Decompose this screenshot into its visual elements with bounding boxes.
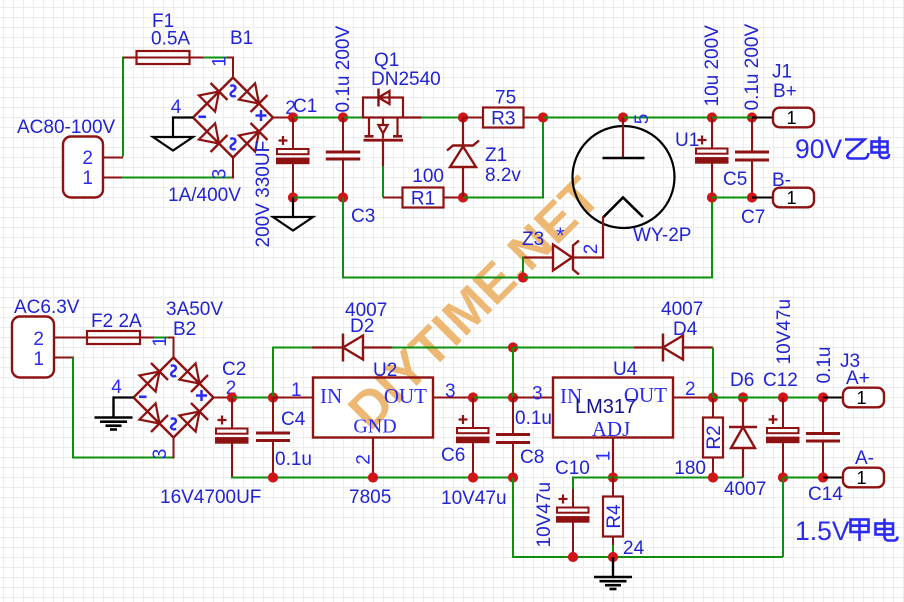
svg-text:10V47u: 10V47u <box>534 482 555 548</box>
wire tube cathode to Z3 <box>572 217 603 258</box>
U4 ADJ pin wire <box>612 438 614 478</box>
svg-text:ADJ: ADJ <box>592 417 631 441</box>
wire tube node to C5 <box>623 117 712 119</box>
wire node C2 to node C4 <box>232 397 273 399</box>
svg-text:DN2540: DN2540 <box>371 69 441 90</box>
svg-text:U4: U4 <box>613 359 638 380</box>
wire B1 pin 2 to node C1 <box>273 117 293 119</box>
capacitor C2 16V4700UF <box>231 398 233 429</box>
capacitor C14 0.1u <box>822 398 824 433</box>
ground at B2 pin 4 earth <box>114 396 134 399</box>
wire node to diode D4 <box>513 347 634 349</box>
regulator U4 LM317 <box>553 378 673 438</box>
svg-text:B+: B+ <box>773 81 797 102</box>
node C6 top <box>468 392 478 402</box>
capacitor C4 0.1u <box>272 398 274 432</box>
node R4 bottom <box>608 552 618 562</box>
svg-text:2: 2 <box>82 148 93 169</box>
wire P2 pin 1 to bridge B2 pin 3 <box>54 357 74 359</box>
capacitor C7 0.1u 200V <box>747 112 757 122</box>
node C4 bottom <box>268 472 278 482</box>
capacitor C1 200V 330UF <box>292 118 294 150</box>
wire fuse F1 to bridge B1 pin 1 <box>190 57 205 59</box>
wire to connector J3 A+ <box>823 397 843 399</box>
capacitor C12 10V47u <box>782 398 784 429</box>
svg-text:75: 75 <box>495 88 516 109</box>
svg-text:4007: 4007 <box>724 479 766 500</box>
svg-text:D6: D6 <box>730 370 754 391</box>
node at C1 bottom <box>288 192 298 202</box>
wire C12 bottom to C14 bottom <box>783 477 823 479</box>
svg-text:C6: C6 <box>441 445 465 466</box>
svg-text:R4: R4 <box>604 504 625 529</box>
svg-text:1: 1 <box>291 380 302 401</box>
regulator U2 box fill <box>313 378 433 438</box>
resistor R3 75 <box>463 117 483 119</box>
svg-text:A+: A+ <box>846 368 870 389</box>
svg-text:10V47u: 10V47u <box>441 488 507 509</box>
svg-text:R2: R2 <box>704 425 725 449</box>
wire D4 down to node OUT <box>712 348 714 398</box>
connector J1 B- <box>773 188 814 208</box>
svg-text:AC6.3V: AC6.3V <box>14 297 80 318</box>
wire node C8 to U4 IN <box>513 397 553 399</box>
diode D6 4007 <box>742 398 744 428</box>
svg-text:U2: U2 <box>373 360 397 381</box>
wire Z3 to bottom rail <box>522 257 524 278</box>
wire node C4 up to diode D2 <box>273 348 313 397</box>
svg-text:1: 1 <box>150 336 171 347</box>
ground below C1 <box>292 198 294 218</box>
svg-text:AC80-100V: AC80-100V <box>17 117 116 138</box>
node R3 right <box>538 112 548 122</box>
node C6 bottom <box>468 472 478 482</box>
wire C2 bottom rail <box>232 477 513 478</box>
svg-text:1A/400V: 1A/400V <box>168 185 241 206</box>
svg-text:C7: C7 <box>741 207 765 228</box>
node Z1 bottom <box>458 192 468 202</box>
svg-text:D2: D2 <box>350 316 374 337</box>
regulator U2 7805 <box>313 378 433 438</box>
svg-text:C1: C1 <box>293 96 317 117</box>
svg-text:Z1: Z1 <box>485 145 507 166</box>
wire D2 to node C8 top <box>392 347 514 349</box>
ground at B1 pin 4 <box>173 118 193 138</box>
svg-text:2: 2 <box>354 454 375 465</box>
node C8 bottom <box>508 472 518 482</box>
wire ADJ row <box>572 477 613 479</box>
svg-text:4: 4 <box>171 97 182 118</box>
svg-text:WY-2P: WY-2P <box>633 225 691 246</box>
node OUT <box>708 392 718 402</box>
resistor R2 180 <box>712 398 714 418</box>
transistor Q1 DN2540 <box>362 116 422 118</box>
connector J1 B+ <box>773 108 814 128</box>
capacitor C5 10u 200V <box>707 112 717 122</box>
svg-text:R3: R3 <box>491 109 515 130</box>
svg-text:3: 3 <box>445 381 456 402</box>
node C14 top <box>818 392 828 402</box>
node at C3 top <box>338 112 348 122</box>
svg-text:2: 2 <box>581 244 602 255</box>
svg-text:0.1u: 0.1u <box>275 449 312 470</box>
svg-text:*: * <box>556 223 565 248</box>
svg-text:D4: D4 <box>673 319 698 340</box>
wire node C4 to U2 IN <box>273 397 313 399</box>
svg-text:GND: GND <box>353 416 396 438</box>
node U2 GND <box>368 472 378 482</box>
capacitor C8 0.1u <box>512 398 514 434</box>
bridge rectifier B2 <box>134 358 214 438</box>
connector J3 A+ <box>843 388 884 408</box>
svg-text:16V4700UF: 16V4700UF <box>160 487 261 508</box>
svg-text:1.5V: 1.5V <box>795 516 850 546</box>
node D6 top <box>738 392 748 402</box>
svg-text:C4: C4 <box>281 409 306 430</box>
svg-text:C8: C8 <box>520 447 544 468</box>
U2 GND pin wire <box>372 438 374 478</box>
wire ground riser from C8 node down <box>513 478 783 558</box>
svg-text:90V: 90V <box>795 134 842 164</box>
connector P2 AC6.3V <box>12 317 54 378</box>
svg-text:1: 1 <box>786 108 796 128</box>
svg-text:3: 3 <box>150 449 171 460</box>
wire R3 right to tube node <box>543 117 623 119</box>
svg-text:Q1: Q1 <box>374 50 399 71</box>
wire C1 bottom to C3 bottom <box>293 197 343 199</box>
node Z3 bottom <box>518 272 528 282</box>
wire OUT rail right <box>713 397 743 399</box>
svg-text:B2: B2 <box>173 319 196 340</box>
wire C5 bottom to C7 bottom <box>712 197 752 199</box>
wire P1 pin 1 to bridge B1 pin 3 <box>103 177 124 179</box>
svg-text:A-: A- <box>855 448 874 469</box>
svg-text:0.1u: 0.1u <box>814 347 835 384</box>
wire node C3 to Q1 <box>343 117 364 119</box>
svg-text:24: 24 <box>623 538 645 559</box>
svg-text:1: 1 <box>786 188 796 208</box>
svg-text:B1: B1 <box>230 28 253 49</box>
node ADJ <box>608 472 618 482</box>
svg-text:R1: R1 <box>411 189 435 210</box>
svg-text:3: 3 <box>210 169 231 180</box>
resistor R4 <box>612 478 614 498</box>
node C12 bottom <box>778 472 788 482</box>
svg-text:4007: 4007 <box>661 299 703 320</box>
wire U2 OUT to node C6 <box>433 397 473 399</box>
wire C12 ground riser <box>782 478 784 558</box>
svg-text:0.1u: 0.1u <box>515 408 552 429</box>
vacuum tube U1 WY-2P <box>573 126 675 228</box>
svg-text:C12: C12 <box>763 370 798 391</box>
zener diode Z1 8.2v <box>462 118 464 147</box>
diode D4 4007 <box>634 346 663 348</box>
bridge rectifier B1 <box>193 78 273 158</box>
fuse F2 2A <box>87 331 140 344</box>
node C4 top <box>268 392 278 402</box>
svg-text:10V47u: 10V47u <box>774 299 795 365</box>
svg-text:5: 5 <box>632 114 653 125</box>
svg-text:LM317: LM317 <box>575 396 636 418</box>
svg-text:200V 330UF: 200V 330UF <box>253 141 274 248</box>
svg-text:C2: C2 <box>222 359 246 380</box>
wire C3 bottom down to bottom rail <box>343 198 524 278</box>
wire F2 to bridge B2 pin 1 <box>140 337 155 339</box>
svg-text:J1: J1 <box>772 62 792 83</box>
node C12 top <box>778 392 788 402</box>
fuse F1 <box>137 51 190 64</box>
node at C3 bottom <box>338 192 348 202</box>
svg-text:3A50V: 3A50V <box>166 299 223 320</box>
svg-text:C10: C10 <box>555 458 590 479</box>
diode D2 4007 <box>312 346 343 348</box>
node C2 top <box>227 392 237 402</box>
node C10 bottom <box>568 552 578 562</box>
node tube plate <box>618 112 628 122</box>
wire C7 top to connector J1 <box>752 117 773 119</box>
svg-text:F2 2A: F2 2A <box>91 311 142 332</box>
svg-text:0.1u 200V: 0.1u 200V <box>333 26 354 113</box>
node R2 bottom <box>708 472 718 482</box>
connector J3 A- <box>843 468 884 488</box>
svg-text:1: 1 <box>33 349 44 370</box>
capacitor C3 0.1u 200V <box>342 118 344 151</box>
svg-text:1: 1 <box>856 388 866 408</box>
wire AC input L to fuse F1 <box>103 157 123 159</box>
wire node Z1 bottom to R3 right <box>463 118 543 198</box>
svg-text:1: 1 <box>82 168 93 189</box>
svg-text:1: 1 <box>856 468 866 488</box>
capacitor C10 10V47u <box>572 477 574 491</box>
wire node C1 to node C3 <box>293 117 343 119</box>
U4 OUT wire to node <box>673 397 713 399</box>
regulator U4 box fill <box>553 378 673 438</box>
wire C14 bottom to connector A- <box>823 477 843 479</box>
bottom rail wire to C5 bottom <box>523 198 712 278</box>
svg-text:2: 2 <box>33 329 44 350</box>
svg-text:IN: IN <box>320 384 342 408</box>
node C7 bottom <box>747 192 757 202</box>
node C8 top <box>508 392 518 402</box>
svg-text:0.5A: 0.5A <box>151 29 190 50</box>
svg-text:100: 100 <box>412 166 444 187</box>
wire node C6 to node C8 <box>473 397 513 399</box>
svg-text:OUT: OUT <box>384 384 427 408</box>
node C14 bottom <box>818 472 828 482</box>
wire B2 pin 2 to node C2 <box>214 397 233 399</box>
svg-text:180: 180 <box>674 458 706 479</box>
svg-text:B-: B- <box>772 170 791 191</box>
resistor R1 100 <box>403 188 444 208</box>
node at C1 top <box>288 112 298 122</box>
svg-text:0.1u 200V: 0.1u 200V <box>742 24 763 111</box>
svg-text:C5: C5 <box>723 169 747 190</box>
earth ground below R4 <box>612 557 614 577</box>
svg-text:Z3: Z3 <box>522 229 544 250</box>
wire R1 to node Z1 bottom <box>444 197 464 199</box>
svg-text:3: 3 <box>532 384 543 405</box>
wire Q1 to node Z1 <box>421 117 463 119</box>
svg-text:1: 1 <box>210 56 231 67</box>
svg-text:C14: C14 <box>808 484 843 505</box>
svg-text:C3: C3 <box>351 206 375 227</box>
wire node C8 vertical from D2 line <box>512 348 514 398</box>
svg-text:4: 4 <box>111 377 122 398</box>
svg-text:7805: 7805 <box>349 487 391 508</box>
wire C5 top to C7 top <box>712 117 752 119</box>
zener diode Z3 <box>573 241 579 275</box>
node above C8 <box>508 342 518 352</box>
svg-text:8.2v: 8.2v <box>485 165 521 186</box>
connector P1 AC80-100V <box>63 137 103 198</box>
svg-text:2: 2 <box>685 379 696 400</box>
svg-text:1: 1 <box>594 451 615 462</box>
wire C7 bottom to connector B- <box>752 197 773 199</box>
node C5 bottom <box>707 192 717 202</box>
node Z1 top <box>458 112 468 122</box>
capacitor C6 10V47u <box>472 398 474 429</box>
wire P2 pin 2 to fuse F2 <box>54 337 87 339</box>
svg-text:10u 200V: 10u 200V <box>702 25 723 107</box>
wire Q1 gate down to R1 <box>382 166 384 198</box>
